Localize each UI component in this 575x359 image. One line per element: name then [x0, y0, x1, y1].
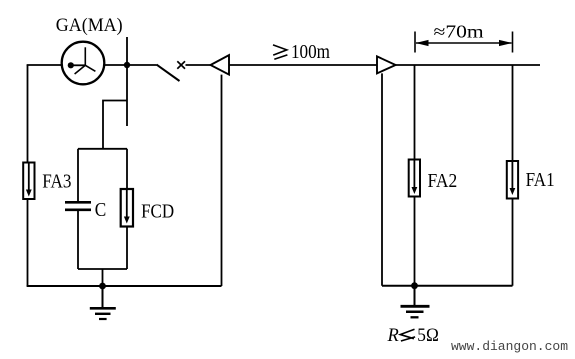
wire: long span between break arrows — [229, 64, 377, 66]
generator GA(MA) circle — [62, 42, 105, 85]
svg-text:≈70m: ≈70m — [434, 22, 484, 42]
wire: right of break arrow to line end — [396, 64, 540, 66]
generator three-phase star: up arm — [84, 47, 86, 65]
svg-text:R: R — [387, 326, 399, 346]
arrester FA3 body — [23, 163, 34, 200]
generator three-phase star: down-left arm — [75, 65, 86, 74]
generator inner dot terminal — [68, 62, 74, 68]
capacitor-arrester box: right edge upper — [126, 149, 128, 189]
node junction dot at generator output — [124, 62, 130, 68]
svg-text:FCD: FCD — [141, 201, 174, 223]
wire: drop from right break arrow down to right bottom bus — [381, 73, 383, 285]
node junction dot on right bottom bus — [411, 282, 418, 289]
wire: branch from stub to C/FCD box top center — [103, 101, 127, 149]
switch blade (open disconnector) — [157, 65, 180, 81]
wire: circle right side to switch — [104, 64, 156, 66]
arrester FA2 body — [409, 160, 420, 197]
wire: stub down from junction to open gap end — [126, 65, 128, 126]
wire: stub up from junction — [126, 37, 128, 65]
wire: bottom bus of left circuit — [27, 285, 222, 287]
label >=100m — [273, 41, 330, 63]
svg-text:C: C — [95, 199, 107, 221]
arrester FA3 internal arrow — [28, 164, 30, 192]
wire: left vertical bus from top line down to bottom line — [27, 65, 29, 286]
svg-text:FA1: FA1 — [526, 169, 555, 191]
capacitor-arrester box: left edge lower — [77, 211, 79, 269]
arrester FA2 internal arrow — [413, 161, 415, 190]
svg-text:FA2: FA2 — [428, 170, 458, 192]
wire: top-left horizontal into generator circle — [27, 64, 62, 66]
generator three-phase star: down-right arm — [85, 65, 95, 71]
ground symbol right: bars — [401, 305, 430, 308]
arrester FA1 internal arrow — [511, 162, 513, 191]
capacitor-arrester box: right edge lower — [126, 227, 128, 270]
capacitor-arrester box: bottom edge — [78, 268, 127, 270]
capacitor-arrester box: top edge — [78, 148, 127, 150]
generator inner lead from dot to star center — [71, 64, 86, 66]
svg-text:GA(MA): GA(MA) — [56, 15, 123, 36]
arrester FCD body — [121, 189, 133, 227]
node junction dot on bottom bus — [99, 283, 106, 290]
switch cross mark x — [177, 61, 185, 68]
wire: box bottom center drop to bottom bus — [102, 269, 104, 286]
label R<=5 ohm — [387, 326, 439, 346]
ground symbol left: stem — [102, 286, 104, 308]
svg-text:www.diangon.com: www.diangon.com — [451, 339, 568, 354]
ground symbol left: bars — [90, 307, 116, 310]
wire: drop from left break arrow down to bottom bus — [221, 75, 223, 286]
wire: switch to left break arrow — [186, 64, 211, 66]
wire: bottom bus of right circuit — [382, 285, 513, 287]
dimension tick left (above FA2) — [414, 32, 416, 53]
svg-text:100m: 100m — [291, 41, 330, 63]
dimension line with arrowheads for 70m span — [416, 42, 512, 44]
dimension tick right (above FA1) — [512, 32, 514, 53]
arrester FA1 body — [507, 161, 518, 199]
wire: FA1 branch vertical — [512, 65, 514, 286]
arrester FCD internal arrow — [126, 190, 128, 219]
wire: FA2 branch vertical — [414, 65, 416, 286]
ground symbol right: stem — [414, 286, 416, 306]
svg-text:5Ω: 5Ω — [417, 326, 439, 346]
svg-text:FA3: FA3 — [42, 171, 71, 193]
capacitor C plates — [65, 201, 91, 204]
break arrow right (hollow triangle pointing right) — [377, 56, 396, 73]
break arrow left (hollow triangle pointing left) — [211, 55, 230, 75]
capacitor-arrester box: left edge upper — [77, 149, 79, 201]
